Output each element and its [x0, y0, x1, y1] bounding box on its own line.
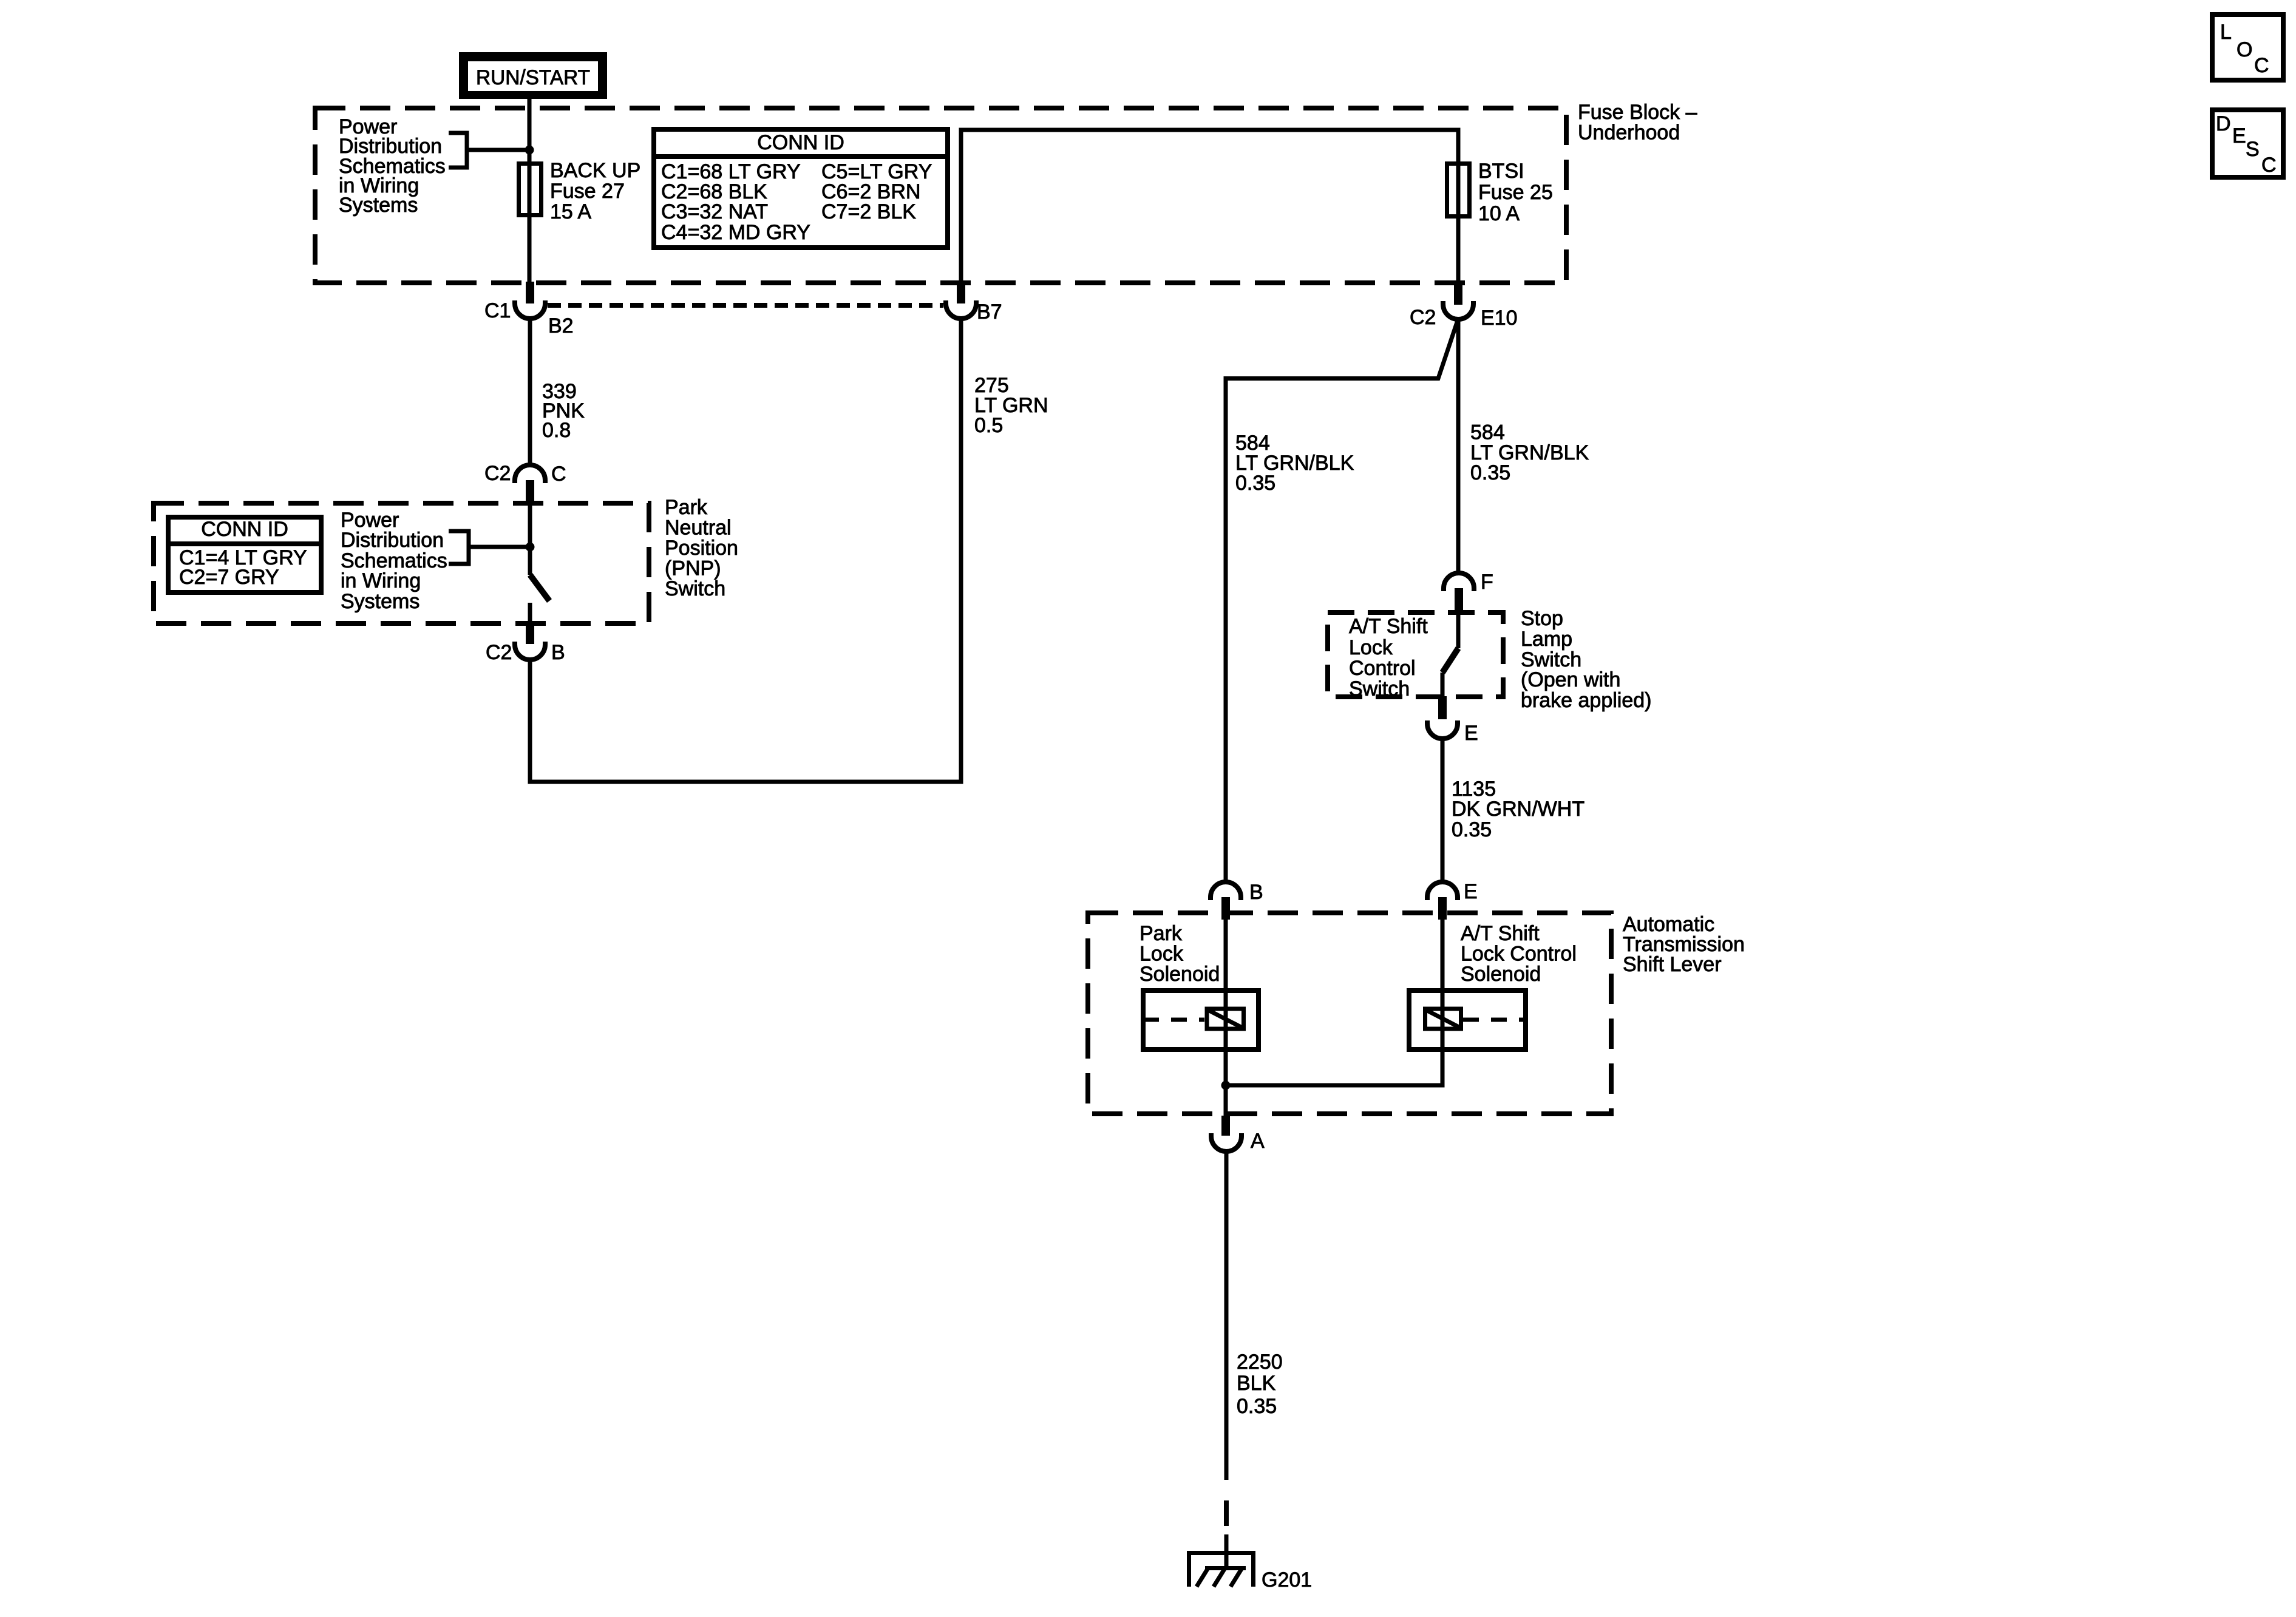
svg-text:Stop: Stop	[1521, 607, 1563, 630]
svg-text:L: L	[2220, 21, 2232, 44]
svg-text:BTSI: BTSI	[1478, 160, 1524, 183]
svg-text:Fuse 27: Fuse 27	[550, 180, 625, 203]
connector B7 pin stub	[957, 282, 965, 303]
connector C2/E10 pin stub	[1454, 283, 1462, 305]
park lock solenoid coil	[1207, 1009, 1244, 1029]
svg-text:Solenoid: Solenoid	[1461, 963, 1541, 986]
wire bracket to PNP switch	[469, 545, 530, 549]
svg-text:C4=32 MD GRY: C4=32 MD GRY	[661, 221, 810, 244]
connector E cup solenoid	[1427, 882, 1458, 900]
LOC legend box	[2212, 15, 2283, 80]
connector F cup	[1444, 573, 1474, 591]
wire C2/B loop to B7	[530, 319, 961, 782]
svg-text:0.8: 0.8	[542, 419, 571, 442]
svg-text:Distribution: Distribution	[341, 529, 444, 552]
wire dashed segment	[1224, 1500, 1229, 1526]
svg-text:G201: G201	[1262, 1568, 1312, 1592]
svg-text:in Wiring: in Wiring	[341, 569, 421, 592]
DESC legend box	[2212, 110, 2283, 177]
node junction at fuse 27 top	[525, 146, 534, 155]
svg-text:B: B	[551, 641, 565, 664]
wire RUN/START to fuse 27	[528, 99, 532, 161]
connector E cup stop lamp	[1427, 720, 1458, 739]
switch blade PNP	[530, 575, 549, 601]
svg-text:B2: B2	[548, 314, 574, 337]
node junction PNP	[526, 543, 535, 552]
node junction solenoid common	[1221, 1081, 1231, 1090]
svg-text:C2: C2	[484, 462, 511, 485]
svg-text:Systems: Systems	[339, 194, 418, 217]
svg-text:0.5: 0.5	[974, 414, 1003, 437]
bracket power distribution 2	[449, 531, 469, 564]
svg-text:2250: 2250	[1237, 1351, 1283, 1374]
svg-text:Lock: Lock	[1140, 943, 1184, 966]
wire into ground	[1224, 1534, 1229, 1568]
connector B cup solenoid	[1211, 882, 1241, 900]
wire fuse 25 to E10	[1456, 219, 1461, 284]
svg-text:C: C	[2261, 154, 2277, 177]
wire fuse 27 to C1 connector	[528, 217, 532, 283]
wire B through park solenoid	[1224, 920, 1228, 1085]
svg-text:(Open with: (Open with	[1521, 668, 1620, 691]
svg-text:E: E	[1464, 722, 1478, 745]
svg-text:C2: C2	[486, 641, 512, 664]
svg-text:Solenoid: Solenoid	[1140, 963, 1220, 986]
connector A cup	[1211, 1133, 1241, 1151]
svg-text:Underhood: Underhood	[1578, 121, 1680, 144]
ground G201	[1187, 1551, 1254, 1555]
wire junction to A connector	[1224, 1085, 1228, 1117]
svg-text:S: S	[2246, 138, 2260, 161]
svg-text:0.35: 0.35	[1452, 818, 1492, 841]
wire bracket to junction	[467, 148, 529, 152]
connector C2/C cup	[515, 465, 545, 483]
connector C2/B pin stub	[526, 624, 534, 644]
connector E pin stub	[1438, 696, 1447, 719]
svg-text:Switch: Switch	[1349, 677, 1410, 700]
wire blade to E	[1441, 673, 1445, 697]
connector B7 cup	[946, 300, 976, 319]
stop lamp switch dashed box	[1328, 612, 1503, 697]
svg-text:C2: C2	[1410, 306, 1436, 329]
wire switch lower contact	[528, 603, 532, 625]
svg-text:E10: E10	[1481, 307, 1518, 330]
svg-text:O: O	[2237, 38, 2252, 61]
svg-text:Systems: Systems	[341, 590, 419, 613]
RUN/START power feed box	[459, 52, 607, 99]
svg-text:DK GRN/WHT: DK GRN/WHT	[1452, 798, 1584, 821]
svg-text:C1: C1	[484, 299, 511, 322]
svg-text:BACK UP: BACK UP	[550, 159, 640, 182]
wire 2250 BLK to ground	[1224, 1151, 1229, 1480]
wire B7 top run to fuse 25	[961, 130, 1458, 282]
svg-text:Shift Lever: Shift Lever	[1623, 953, 1722, 976]
svg-text:C2=7 GRY: C2=7 GRY	[179, 566, 279, 589]
svg-text:15 A: 15 A	[550, 200, 591, 223]
svg-text:Fuse 25: Fuse 25	[1478, 181, 1553, 204]
A/T solenoid coil	[1425, 1009, 1461, 1029]
svg-text:C: C	[551, 463, 566, 486]
svg-text:Switch: Switch	[665, 577, 725, 600]
svg-text:CONN ID: CONN ID	[201, 518, 288, 541]
svg-text:brake applied): brake applied)	[1521, 689, 1651, 712]
svg-text:BLK: BLK	[1237, 1372, 1276, 1395]
svg-text:A/T Shift: A/T Shift	[1461, 922, 1540, 945]
svg-text:Neutral: Neutral	[665, 517, 732, 540]
svg-text:A: A	[1251, 1130, 1265, 1153]
switch blade stop lamp	[1442, 648, 1458, 673]
connector C1/B2 pin stub	[526, 282, 534, 303]
svg-text:0.35: 0.35	[1237, 1395, 1277, 1418]
CONN ID table PNP	[168, 517, 321, 592]
inline connector dotted line	[548, 303, 943, 308]
wire E through A/T solenoid to junction	[1226, 920, 1442, 1085]
svg-text:10 A: 10 A	[1478, 202, 1520, 225]
connector E pin stub	[1438, 897, 1447, 920]
connector B pin stub	[1221, 897, 1230, 920]
svg-text:Position: Position	[665, 537, 738, 560]
svg-text:C3=32 NAT: C3=32 NAT	[661, 200, 768, 223]
svg-text:C: C	[2254, 54, 2269, 77]
PNP switch dashed box	[154, 503, 649, 623]
svg-text:CONN ID: CONN ID	[757, 131, 844, 154]
svg-text:Lock Control: Lock Control	[1461, 943, 1577, 966]
svg-text:Park: Park	[665, 496, 708, 519]
svg-text:A/T Shift: A/T Shift	[1349, 615, 1428, 638]
connector C2/E10 cup	[1443, 301, 1473, 319]
bracket power distribution	[449, 133, 467, 168]
wire 1135 E to solenoid E	[1441, 738, 1445, 883]
connector C2/B cup	[515, 642, 545, 660]
wire F into switch	[1456, 611, 1461, 648]
svg-text:B7: B7	[977, 300, 1002, 324]
svg-text:584: 584	[1470, 421, 1505, 444]
svg-text:C7=2 BLK: C7=2 BLK	[821, 200, 916, 223]
svg-text:E: E	[1464, 880, 1478, 903]
svg-text:Lock: Lock	[1349, 636, 1393, 659]
fuse F27 BACK UP	[519, 164, 542, 215]
wire E10 branch diagonal to park lock solenoid	[1226, 319, 1458, 883]
fuse block underhood dashed box	[315, 108, 1566, 283]
svg-text:(PNP): (PNP)	[665, 557, 721, 580]
connector F pin stub	[1455, 588, 1463, 611]
svg-text:Control: Control	[1349, 657, 1416, 680]
wire C2/C into switch	[528, 503, 532, 575]
connector C1/B2 cup	[515, 300, 545, 319]
wire B2 to C2/C	[528, 319, 532, 465]
svg-text:Park: Park	[1140, 922, 1183, 945]
svg-text:B: B	[1249, 881, 1263, 904]
automatic transmission shift lever dashed box	[1088, 913, 1611, 1114]
A/T shift lock control solenoid box	[1409, 991, 1526, 1049]
svg-text:0.35: 0.35	[1470, 461, 1510, 484]
wire E10 to F	[1456, 319, 1461, 574]
park lock solenoid box	[1143, 991, 1258, 1049]
fuse F25 BTSI	[1447, 164, 1470, 217]
connector C2/C pin stub	[526, 480, 534, 503]
svg-text:E: E	[2232, 124, 2246, 147]
svg-text:Fuse Block –: Fuse Block –	[1578, 101, 1697, 124]
svg-text:D: D	[2216, 112, 2231, 135]
svg-text:RUN/START: RUN/START	[476, 66, 590, 89]
CONN ID table underhood	[654, 129, 948, 248]
svg-text:0.35: 0.35	[1235, 472, 1275, 495]
svg-text:F: F	[1481, 571, 1493, 594]
svg-text:Lamp: Lamp	[1521, 628, 1572, 651]
connector A pin stub	[1221, 1116, 1230, 1136]
